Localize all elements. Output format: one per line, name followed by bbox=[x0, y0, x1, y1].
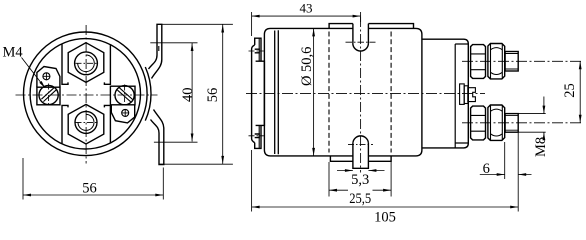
svg-text:40: 40 bbox=[180, 87, 196, 102]
svg-text:25: 25 bbox=[562, 83, 578, 98]
svg-text:M8: M8 bbox=[533, 137, 549, 157]
svg-text:56: 56 bbox=[205, 88, 221, 103]
svg-text:6: 6 bbox=[483, 161, 490, 177]
svg-text:5,3: 5,3 bbox=[351, 172, 369, 188]
svg-text:Ø 50,6: Ø 50,6 bbox=[299, 47, 315, 86]
svg-text:56: 56 bbox=[82, 180, 97, 196]
svg-text:M4: M4 bbox=[3, 45, 24, 61]
svg-text:25,5: 25,5 bbox=[349, 191, 371, 207]
svg-text:43: 43 bbox=[300, 0, 313, 15]
svg-text:105: 105 bbox=[374, 209, 396, 225]
